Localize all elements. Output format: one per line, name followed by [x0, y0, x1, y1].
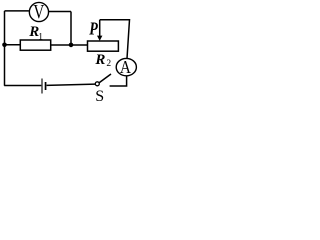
- svg-text:A: A: [120, 57, 131, 77]
- svg-text:R2: R2: [94, 52, 111, 69]
- svg-text:V: V: [33, 0, 44, 23]
- svg-text:P: P: [88, 20, 98, 39]
- svg-text:S: S: [95, 88, 104, 104]
- svg-text:R1: R1: [28, 24, 43, 42]
